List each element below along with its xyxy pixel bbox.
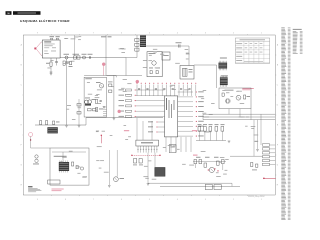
test point 7 red <box>118 110 121 113</box>
svg-text:9: 9 <box>37 199 38 201</box>
svg-text:5: 5 <box>149 33 150 35</box>
wire VCO feed <box>146 46 189 66</box>
resistor R2010 <box>63 61 70 65</box>
capacitor C2110 on VCO feed <box>176 42 182 47</box>
coil 5030 dark <box>47 127 57 133</box>
svg-text:1: 1 <box>261 33 262 35</box>
IC 7100 top pins <box>137 83 197 96</box>
filter box 1107 <box>162 52 170 60</box>
connector 1302 hatched <box>155 167 166 176</box>
AGC bus wire <box>35 118 86 125</box>
svg-text:2: 2 <box>233 199 234 201</box>
trimmer 3105 <box>33 155 39 165</box>
wire A3 internals <box>52 152 86 161</box>
oscillator box 1106 <box>147 52 162 77</box>
wire mid column <box>78 99 80 125</box>
svg-text:F: F <box>277 145 278 147</box>
capacitor C2011 <box>69 62 73 67</box>
audio module A3 box <box>50 148 89 185</box>
svg-text:G: G <box>21 165 23 167</box>
wire IF column <box>126 35 137 57</box>
IC 7606 AFC <box>220 75 228 86</box>
title ESQUEMA ELETRICO TUNER <box>20 18 70 23</box>
capacitor C3025 <box>108 82 113 87</box>
jack plug 1101 <box>64 54 70 59</box>
svg-text:4: 4 <box>177 33 178 35</box>
capacitor C2102 stack <box>135 43 139 46</box>
ladder pins right of A2 <box>103 107 107 116</box>
wire 5V rail down <box>105 35 107 75</box>
voltage table <box>235 38 269 63</box>
resistor R3032 on AGC bus <box>46 121 48 125</box>
red revision note <box>52 189 64 192</box>
capacitor C3310 below IF box <box>133 159 137 166</box>
component reference labels scattered <box>47 36 258 179</box>
supply label 5V <box>101 36 112 37</box>
connector 1603 boxes <box>205 185 221 190</box>
PLL reference box 1108 <box>219 88 251 109</box>
wire bottom buses <box>148 183 240 186</box>
tuner A1 1100 box <box>42 40 60 58</box>
decoupling cluster 3120 <box>196 124 226 140</box>
transformer 5104 <box>180 66 194 80</box>
resistor R3610 right <box>251 163 253 167</box>
parts list column 2 <box>293 29 303 54</box>
capacitor C3112 <box>222 93 224 96</box>
IC 7300 bottom pins <box>137 146 157 153</box>
capacitor C3611 right <box>252 164 258 170</box>
resistor R3020 in A2 <box>93 109 97 111</box>
antenna symbol <box>34 42 42 56</box>
svg-text:A: A <box>277 44 279 47</box>
capacitor C3040 mid <box>77 104 81 107</box>
capacitor row above IC 7100 <box>138 88 191 89</box>
wire connector to A3 <box>31 147 50 149</box>
small box 1301 <box>169 145 176 153</box>
red note colour wire <box>124 130 129 131</box>
main IC 7100 TDA9808 box <box>165 96 178 137</box>
svg-text:7: 7 <box>93 33 94 35</box>
resistor R3031 on AGC bus <box>40 121 42 125</box>
svg-text:G: G <box>277 165 279 167</box>
crystal 1103 <box>226 99 231 103</box>
jack plug 1103 <box>82 54 87 59</box>
transistor 7112 <box>236 95 241 100</box>
svg-text:4: 4 <box>177 199 178 201</box>
shield can 1105 <box>140 35 146 47</box>
drawing reference text block <box>28 186 41 192</box>
wire tuner 33V vertical <box>74 35 76 56</box>
svg-text:B: B <box>277 65 279 67</box>
svg-text:7: 7 <box>93 199 94 201</box>
capacitor C3019 in A2 <box>88 109 92 111</box>
svg-text:F: F <box>21 145 22 147</box>
IF buffer IC 7300 box <box>136 140 159 146</box>
red note mid <box>193 155 198 156</box>
buses to right edge <box>203 114 275 120</box>
capacitor C2005 on tuner wire <box>88 54 93 59</box>
wire vertical to AGC bus <box>66 59 68 125</box>
grid column ticks and numbers <box>37 33 262 202</box>
page number box <box>6 11 12 15</box>
svg-text:1: 1 <box>261 199 262 201</box>
svg-text:6: 6 <box>121 33 122 35</box>
IC 7100 right pins <box>178 91 204 136</box>
chassis name bar <box>13 11 41 15</box>
IC 7100 lower left pins <box>148 121 165 132</box>
svg-text:C: C <box>21 85 23 87</box>
svg-text:3: 3 <box>205 199 206 201</box>
capacitor C3502 <box>76 166 78 169</box>
svg-text:3: 3 <box>205 33 206 35</box>
wire A2 top feed <box>107 76 143 118</box>
capacitor C3311 below IF box <box>139 159 143 166</box>
wire sound cluster <box>193 162 226 171</box>
svg-text:C: C <box>277 85 279 87</box>
wire right bus low <box>230 155 263 157</box>
svg-text:9: 9 <box>37 33 38 35</box>
adjust note AJUSTE <box>242 88 254 90</box>
resistor R2008 below tuner <box>46 58 52 71</box>
red test connector 0105 <box>29 133 33 149</box>
transistor 7601 <box>209 167 214 172</box>
capacitor C3041 mid <box>77 112 81 115</box>
schematic border frame <box>23 35 275 195</box>
svg-text:2: 2 <box>233 33 234 35</box>
transistor 7005 <box>96 82 104 88</box>
transistor 7301 <box>114 177 125 182</box>
IC 7100 left pin components <box>119 89 165 118</box>
IF bus wire <box>86 117 163 119</box>
filter 1102 box pair <box>73 54 81 59</box>
wire antenna to tuner <box>41 42 42 56</box>
svg-text:D: D <box>21 105 23 107</box>
svg-text:8: 8 <box>65 33 66 35</box>
file name caption <box>248 196 265 198</box>
svg-text:5: 5 <box>149 199 150 201</box>
resistor R3018 in A2 <box>96 108 104 112</box>
svg-text:6: 6 <box>121 199 122 201</box>
sound cluster parts <box>194 157 224 167</box>
capacitor C2101 stack <box>135 39 139 42</box>
svg-text:8: 8 <box>65 199 66 201</box>
svg-text:A: A <box>21 44 23 47</box>
svg-text:E: E <box>21 125 23 127</box>
capacitor C3033 on AGC bus <box>53 121 60 124</box>
wire tuner output <box>60 58 126 76</box>
resistor R2003 above tuner <box>56 36 60 40</box>
wire IC7100 to IC7300 <box>137 118 191 152</box>
svg-text:B: B <box>21 65 23 67</box>
capacitor C2103 stack <box>135 48 139 51</box>
IF module A2 box <box>84 77 106 117</box>
grid row ticks and letters <box>21 44 279 187</box>
resistor R3026 <box>109 90 112 92</box>
wire transformer to IF ICs <box>194 65 217 88</box>
capacitor C2001 above tuner <box>50 36 55 40</box>
red pin marks sound <box>208 168 219 171</box>
wire A2 to IC bus <box>84 76 116 78</box>
parts list column 1 <box>281 28 290 221</box>
wire PLL drops <box>229 109 251 120</box>
resistor R3110 <box>244 95 251 99</box>
svg-text:ESQUEMA ELÉTRICO TUNER: ESQUEMA ELÉTRICO TUNER <box>20 18 70 23</box>
svg-text:H: H <box>21 185 23 187</box>
ground symbols <box>50 73 259 187</box>
IC 7605 SIF <box>219 58 228 71</box>
resistor R3501 <box>72 162 74 166</box>
svg-text:H: H <box>277 185 279 187</box>
capacitor C2009 below tuner <box>55 58 58 66</box>
transistor 7502 <box>80 167 83 170</box>
connector 1604 box <box>48 180 60 184</box>
red dashed align line <box>131 155 161 156</box>
svg-text:D: D <box>277 105 279 107</box>
test point 5 red <box>136 80 139 83</box>
red vertical test lead <box>101 135 102 144</box>
wire right verticals <box>254 114 261 156</box>
wire lower verticals <box>109 150 155 185</box>
connector pad column 1601 <box>263 144 276 166</box>
red note right <box>192 130 197 131</box>
ground below tuner <box>50 71 53 73</box>
IC 7501 hatched <box>59 161 69 173</box>
svg-text:E: E <box>277 125 279 127</box>
SAW filter 1069 transistors <box>85 98 96 106</box>
capacitor C3016 in A2 <box>100 101 102 102</box>
resistor R3015 in A2 <box>96 100 98 104</box>
svg-text:56532059_058.eps 190204: 56532059_058.eps 190204 <box>248 196 265 198</box>
red wire to frame <box>263 178 276 180</box>
test point 2 red <box>102 63 105 76</box>
